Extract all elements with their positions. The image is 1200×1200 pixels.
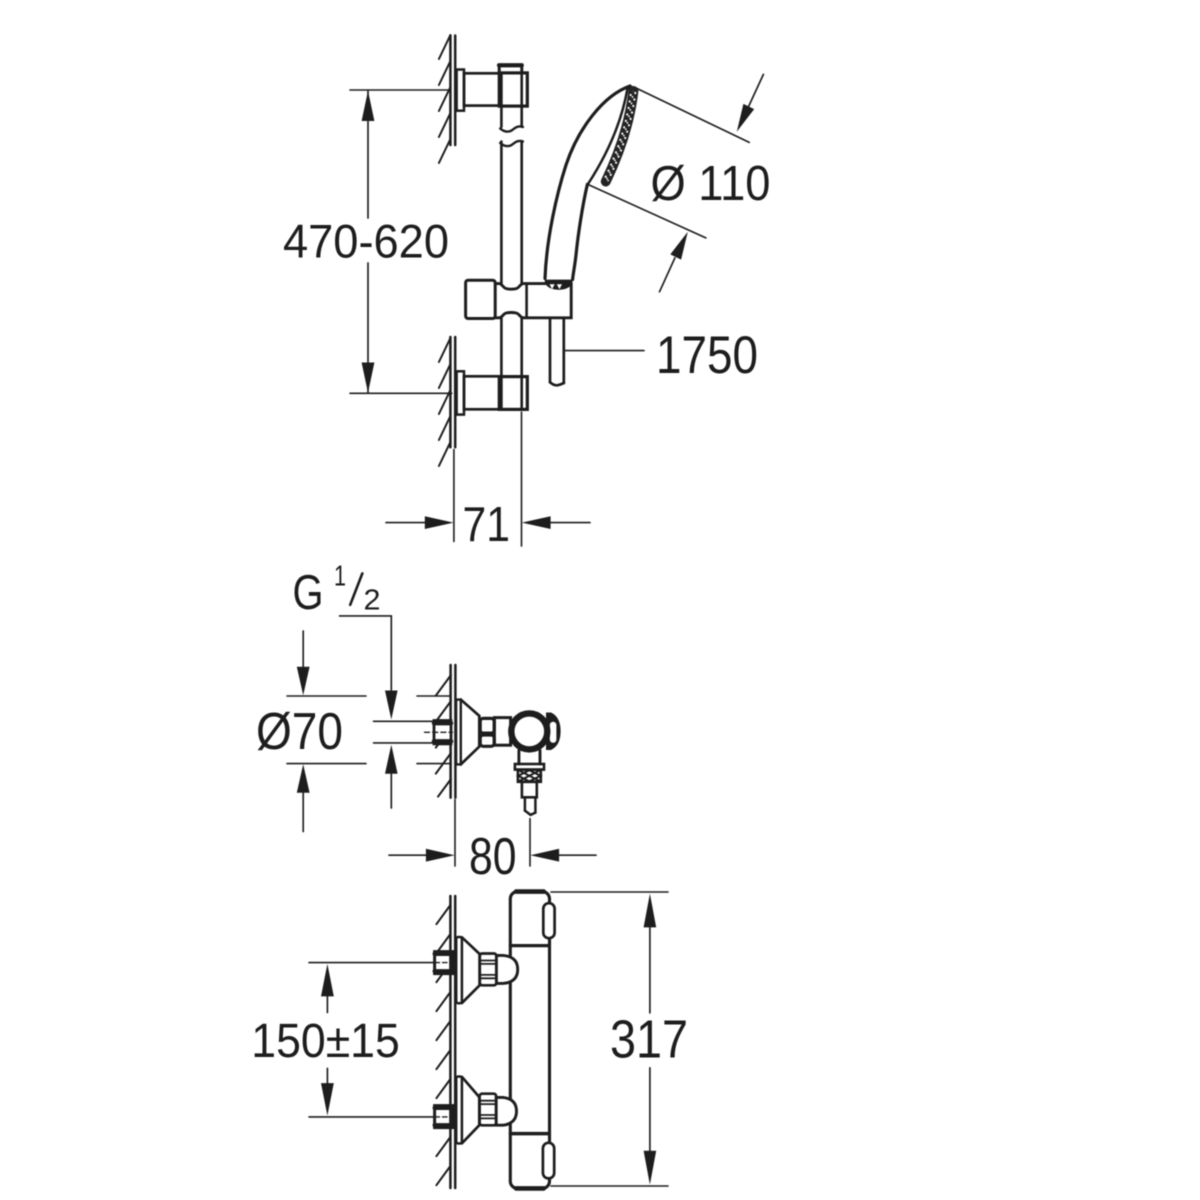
dimension 317 line and arrows [649, 927, 651, 1152]
dimension 71 arrowheads [425, 516, 454, 529]
wall (middle) hatching [436, 675, 451, 797]
G 1/2 leader and arrows [340, 616, 392, 690]
svg-text:80: 80 [469, 828, 517, 886]
outlet knurled ring [518, 770, 541, 782]
svg-text:71: 71 [463, 498, 511, 552]
dimension 470-620 line and arrows [367, 91, 369, 393]
dimension 150±15 line and arrows [326, 996, 328, 1085]
wall (lower segment) double line [450, 337, 455, 447]
lower wall bracket block [499, 377, 527, 410]
hand shower spray face stipple band [606, 91, 634, 182]
valve right cap [546, 713, 561, 751]
svg-text:150±15: 150±15 [251, 1015, 399, 1068]
valve escutcheon cone [461, 700, 480, 765]
dimension 80 extension lines [455, 800, 530, 867]
svg-text:470-620: 470-620 [283, 215, 449, 268]
nipple axis dashed [425, 731, 453, 733]
hand shower face edge [588, 89, 628, 185]
outlet union band [515, 764, 544, 770]
lower wall bracket arm [464, 376, 499, 409]
valve body circle [511, 713, 547, 749]
dimension 150±15 extension lines [309, 963, 434, 1117]
top wall bracket escutcheon [457, 70, 464, 111]
wall (lower segment) hatching [439, 338, 451, 466]
glide holder body on rail [495, 284, 571, 318]
dimension 317 extension lines [551, 892, 668, 1186]
valve escutcheon base plate [456, 700, 461, 765]
top wall bracket arm [464, 73, 499, 105]
bottom inlet escutcheon cone [462, 1077, 479, 1143]
svg-text:G: G [293, 566, 324, 620]
glide holder divider line [525, 284, 528, 317]
top wall bracket block [499, 73, 527, 106]
dimension Ø70 extension lines [287, 696, 451, 764]
top handle end cap [543, 903, 554, 938]
wall (top segment) double line [450, 36, 455, 146]
mixer bar body [510, 891, 549, 1188]
rail top end cap [499, 65, 522, 73]
supply hex nut top (left of wall) [435, 952, 453, 974]
bottom inlet union nut [480, 1094, 497, 1126]
slide bar rail [501, 73, 521, 410]
G 1/2 extension lines (nipple) [374, 721, 434, 743]
svg-text:1750: 1750 [656, 326, 758, 385]
wall (bottom) hatching [436, 905, 450, 1185]
wall (top segment) hatching [439, 35, 451, 163]
bottom inlet dome [496, 1097, 516, 1125]
glide holder knob [466, 280, 496, 318]
svg-text:317: 317 [610, 1010, 688, 1070]
valve outlet neck [519, 751, 540, 765]
dimension 470-620 extension lines [350, 90, 452, 393]
dimension 71 extension lines [454, 412, 522, 546]
nut axis dashed lines [435, 962, 452, 964]
mixer bar top inner line [511, 944, 550, 947]
dimension Ø70 line and arrows [302, 631, 304, 832]
supply hex nut bottom (left of wall) [435, 1106, 453, 1128]
top inlet dome [496, 955, 517, 983]
valve inlet connector [494, 718, 510, 746]
bottom handle end cap [543, 1143, 554, 1179]
svg-text:Ø70: Ø70 [256, 703, 343, 761]
dimension 71 lines [386, 522, 590, 524]
dimension Ø110 arrowheads [737, 104, 754, 132]
svg-text:2: 2 [364, 585, 381, 617]
top inlet union nut [480, 954, 497, 986]
bottom inlet escutcheon base [456, 1077, 462, 1144]
ferrule highlight marks [550, 284, 563, 289]
svg-text:Ø 110: Ø 110 [651, 157, 771, 211]
top inlet escutcheon base [456, 937, 462, 1003]
lower wall bracket escutcheon [457, 371, 464, 414]
hand shower head tip [626, 84, 636, 93]
supply nipple (hex, left of wall) [434, 721, 451, 744]
top inlet escutcheon cone [462, 937, 480, 1003]
dimension 80 lines [389, 854, 596, 856]
rail break symbol [500, 126, 523, 146]
wall (middle) double line [451, 665, 456, 798]
leader line 1750 [564, 350, 644, 352]
dimension Ø110 lines [588, 74, 764, 291]
wall (bottom) double line [450, 896, 455, 1188]
outlet adapter [522, 782, 537, 798]
hose stub (middle) [525, 797, 536, 815]
hand shower back outline [545, 86, 630, 279]
valve union nut [480, 718, 494, 733]
mixer bar bottom inner line [511, 1132, 550, 1136]
hand shower handle ferrule (dark cone in holder) [545, 280, 573, 290]
svg-text:1: 1 [334, 561, 346, 593]
dimension 80 arrowheads [426, 849, 455, 862]
hand shower handle front line [573, 184, 588, 279]
shower hose (top section) [550, 318, 564, 385]
